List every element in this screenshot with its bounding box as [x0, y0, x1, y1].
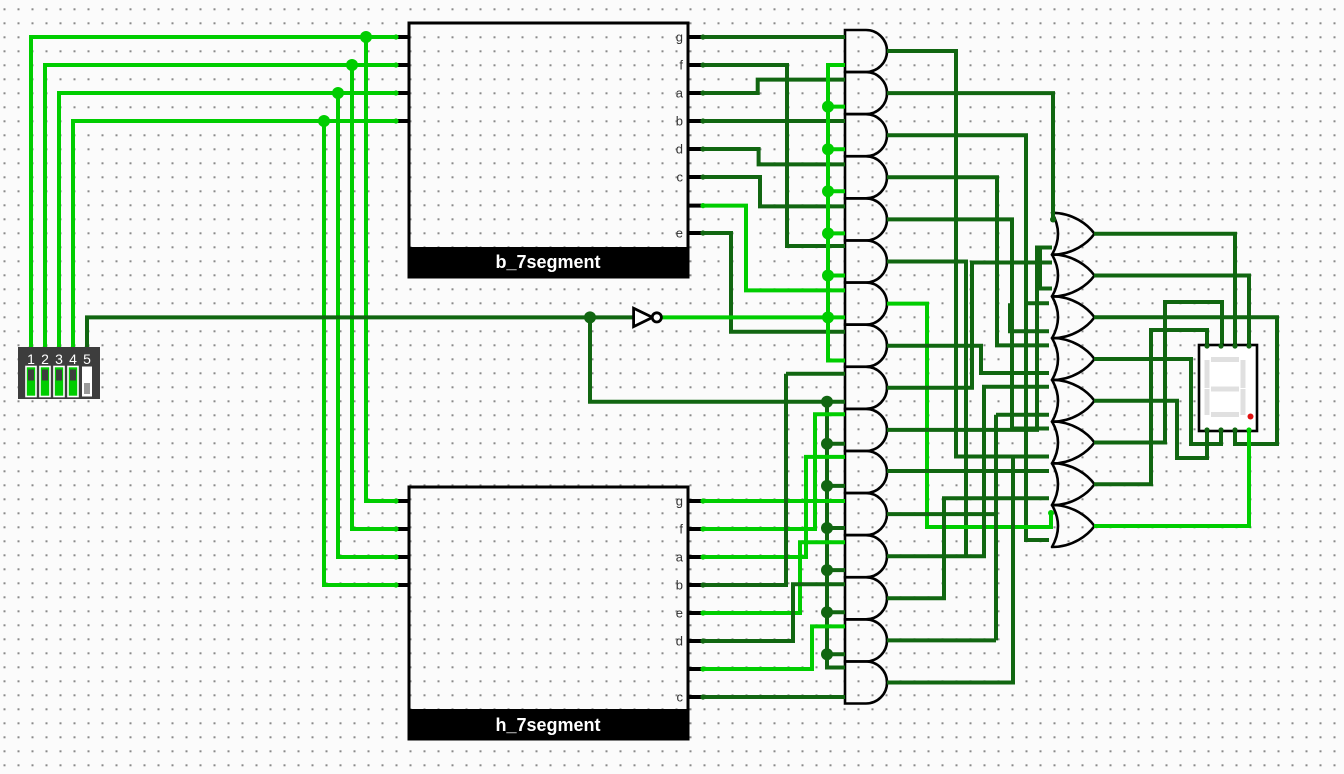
wire b.d jog to AND4 upper input — [702, 149, 845, 164]
wire OR1 output to display top pin 3 — [1094, 234, 1235, 345]
wire AND5 output to OR6 upper input — [887, 219, 1049, 428]
pin dot OR8 upper input — [1048, 510, 1054, 516]
svg-text:1: 1 — [27, 351, 35, 367]
AND gate A8 — [845, 325, 887, 367]
decimal point (lit) — [1248, 414, 1254, 420]
AND gate A2 — [845, 72, 887, 114]
wire OR3 output to display bottom pin 3 — [1094, 317, 1277, 444]
wire jog to OR2 lower input — [1040, 248, 1052, 289]
wire select branch down to bottom AND group — [590, 317, 827, 401]
wire select stub to AND lower input y=443.8 — [827, 442, 845, 446]
AND gate A16 — [845, 662, 887, 704]
pin dot h_7segment output y=641 — [700, 638, 705, 643]
wire AND1 output to OR6 lower input — [887, 51, 1049, 457]
svg-text:f: f — [679, 58, 683, 73]
svg-text:d: d — [676, 634, 683, 649]
svg-text:e: e — [676, 226, 683, 241]
AND gate A14 — [845, 577, 887, 619]
svg-text:4: 4 — [69, 351, 77, 367]
pin dot h_7segment input y=585 — [393, 582, 398, 587]
AND gate A15 — [845, 619, 887, 661]
pin dot h_7segment output y=669 — [700, 666, 705, 671]
wire AND11 output to OR7 upper input — [887, 469, 1049, 473]
junction inverted-select bus y=149.2 — [822, 143, 834, 155]
junction inverted-select bus y=317.4 — [822, 311, 834, 323]
svg-text:d: d — [676, 142, 683, 157]
AND gate A6 — [845, 241, 887, 283]
pin dot display top x=1235 — [1232, 343, 1237, 348]
pin dot h_7segment output y=529 — [700, 526, 705, 531]
pin dot b_7segment input y=65 — [393, 62, 398, 67]
svg-text:a: a — [676, 550, 684, 565]
wire h.f up to AND10 upper input — [702, 414, 845, 529]
pin dot h_7segment output y=613 — [700, 610, 705, 615]
wire OR8 output to display decimal-point pin — [1094, 431, 1249, 526]
subcircuit U2 b_7segment — [395, 23, 704, 277]
pin dot display top x=1221 — [1218, 343, 1223, 348]
pin dot b_7segment output y=93 — [700, 90, 705, 95]
junction select bus y=401.7 — [821, 396, 833, 408]
wire switch pin3 to b_7segment input a row — [59, 93, 409, 347]
pin dot display bottom x=1221 — [1218, 427, 1223, 432]
wire inverted-select bus up to AND1 lower input — [828, 65, 845, 317]
wire shared riser column — [994, 415, 998, 641]
junction at (324,121) — [318, 115, 330, 127]
svg-text:c: c — [677, 690, 684, 705]
wire AND2 output to OR1 upper input — [887, 93, 1053, 219]
wire branch to h_7segment input b row — [324, 121, 409, 585]
junction at (338,93) — [332, 87, 344, 99]
wire stub to AND9 upper input — [786, 372, 845, 376]
svg-text:e: e — [676, 606, 683, 621]
wire b.c jog to AND5 upper input — [702, 177, 845, 206]
junction select bus y=654.3 — [821, 648, 833, 660]
wire inverted-select stub to AND lower input y=275.5 — [828, 274, 845, 278]
wire AND4 output to OR4 upper input — [887, 177, 1049, 345]
OR gate O7 — [1052, 463, 1095, 505]
svg-text:g: g — [676, 494, 683, 509]
pin dot switch x=59 — [56, 345, 61, 350]
wire NOT output to AND7 lower input — [661, 315, 845, 319]
junction at (366,37) — [360, 31, 372, 43]
junction inverted-select bus y=106.6 — [822, 101, 834, 113]
wire select stub to AND lower input y=612.2 — [827, 610, 845, 614]
OR gate O6 — [1052, 422, 1095, 464]
OR gate O5 — [1052, 380, 1095, 422]
wire branch to h_7segment input g row — [366, 37, 409, 501]
wire inverted-select stub to AND lower input y=106.6 — [828, 105, 845, 109]
wire AND8 output to OR4 lower input — [887, 346, 1049, 373]
wire h.dp up to AND15 upper input — [702, 626, 845, 669]
wire b.dp down to AND7 upper input — [702, 206, 845, 291]
wire b.g to AND1 upper input — [702, 35, 845, 39]
pin dot h_7segment output y=501 — [700, 498, 705, 503]
pin dot switch x=87 — [84, 345, 89, 350]
OR gate O4 — [1052, 338, 1095, 380]
wire b.f down to AND6 upper input — [702, 65, 845, 246]
pin dot b_7segment output y=65 — [700, 62, 705, 67]
wire switch pin2 to b_7segment input f row — [45, 65, 409, 347]
wire switch pin5 (select) to NOT gate input — [87, 317, 633, 347]
OR gate O1 — [1052, 213, 1095, 255]
pin dot b_7segment output y=205.6 — [700, 203, 705, 208]
AND gate A9 — [845, 367, 887, 409]
pin dot b_7segment output y=149 — [700, 146, 705, 151]
junction inverted-select bus y=275.5 — [822, 270, 834, 282]
AND gate A12 — [845, 493, 887, 535]
pin dot switch x=31 — [28, 345, 33, 350]
pin dot b_7segment input y=37 — [393, 34, 398, 39]
AND gate A3 — [845, 114, 887, 156]
pin dot b_7segment output y=177 — [700, 174, 705, 179]
pin dot b_7segment output y=233 — [700, 230, 705, 235]
wire select bus to AND16 upper input — [827, 402, 845, 668]
NOT gate U1 — [634, 308, 653, 326]
wire select stub to AND lower input y=570.1 — [827, 568, 845, 572]
wire h.a up to AND11 upper input — [702, 457, 845, 557]
wire AND6 output riser — [887, 262, 966, 557]
svg-text:b_7segment: b_7segment — [495, 252, 600, 272]
wire OR4 output to display bottom pin 2 — [1094, 359, 1221, 444]
svg-text:h_7segment: h_7segment — [495, 715, 600, 735]
junction select line — [584, 311, 596, 323]
pin dot switch x=45 — [42, 345, 47, 350]
junction select bus y=443.8 — [821, 438, 833, 450]
svg-text:2: 2 — [41, 351, 49, 367]
pin dot display top x=1249 — [1246, 343, 1251, 348]
AND gate A11 — [845, 451, 887, 493]
AND gate A13 — [845, 535, 887, 577]
wire OR7 output to display top pin 1 — [1094, 330, 1207, 484]
svg-text:b: b — [676, 114, 683, 129]
junction inverted-select bus y=233.4 — [822, 227, 834, 239]
pin dot b_7segment output y=37 — [700, 34, 705, 39]
wire select stub to AND9 lower input — [827, 400, 845, 404]
wire OR5 output to display bottom pin 1 — [1094, 401, 1207, 458]
wire h.c to AND16 lower input — [702, 695, 845, 699]
junction select bus y=485.9 — [821, 480, 833, 492]
pin dot OR1 upper input — [1050, 217, 1056, 223]
wire h.e up to AND13 upper input — [702, 542, 845, 613]
pin dot h_7segment input y=501 — [393, 498, 398, 503]
wire AND9 output to OR2 upper input — [887, 263, 1052, 388]
svg-text:f: f — [679, 522, 683, 537]
wire AND15 output to riser — [887, 638, 996, 642]
wire stub to OR3 upper input — [1026, 301, 1049, 305]
wire b.a jog to AND2 upper input — [702, 80, 845, 93]
wire select stub to AND lower input y=654.3 — [827, 652, 845, 656]
svg-text:c: c — [677, 170, 684, 185]
wire AND10 output to OR1 lower input — [887, 248, 1052, 430]
wire AND12 output to riser — [887, 512, 996, 516]
wire inverted-select jog to AND8 lower input — [828, 317, 845, 360]
pin dot h_7segment input y=557 — [393, 554, 398, 559]
wire jog to OR3 lower input — [1010, 303, 1049, 331]
pin dot h_7segment output y=585 — [700, 582, 705, 587]
pin dot display top x=1207 — [1204, 343, 1209, 348]
DIP switch SW1 — [18, 347, 100, 399]
svg-text:3: 3 — [55, 351, 63, 367]
pin dot display bottom x=1207 — [1204, 427, 1209, 432]
wire branch to h_7segment input a row — [338, 93, 409, 557]
pin dot switch x=73 — [70, 345, 75, 350]
pin dot h_7segment input y=529 — [393, 526, 398, 531]
pin dot b_7segment output y=121 — [700, 118, 705, 123]
wire AND14 output to OR7 lower input — [887, 498, 1049, 598]
wire branch to h_7segment input f row — [352, 65, 409, 529]
wire select stub to AND lower input y=528 — [827, 526, 845, 530]
OR gate O8 — [1052, 505, 1095, 547]
pin dot b_7segment input y=121 — [393, 118, 398, 123]
junction inverted-select bus y=191.3 — [822, 185, 834, 197]
wire OR6 output to display top pin 2 — [1094, 302, 1222, 443]
OR gate O3 — [1052, 296, 1095, 338]
wire b.b to AND3 upper input — [702, 119, 845, 123]
wire AND13 output to OR5 upper input — [887, 387, 1049, 556]
wire h.b up to AND9 upper input riser — [702, 374, 786, 585]
pin dot display bottom x=1249 — [1246, 427, 1251, 432]
svg-text:b: b — [676, 578, 683, 593]
AND gate A10 — [845, 409, 887, 451]
pin dot b_7segment input y=93 — [393, 90, 398, 95]
svg-text:5: 5 — [83, 351, 91, 367]
wire AND16 output to OR6 lower input — [887, 457, 1013, 683]
svg-text:g: g — [676, 30, 683, 45]
wire inverted-select stub to AND lower input y=233.4 — [828, 231, 845, 235]
wire inverted-select stub to AND lower input y=191.3 — [828, 189, 845, 193]
wire b.e down to AND8 upper input — [702, 233, 845, 332]
wire riser to OR5 lower input — [996, 413, 1049, 417]
pin dot h_7segment output y=697 — [700, 694, 705, 699]
AND gate A7 — [845, 283, 887, 325]
wire h.g to AND12 upper input — [702, 499, 845, 503]
subcircuit U3 h_7segment — [395, 487, 704, 739]
OR gate O2 — [1052, 255, 1095, 297]
junction select bus y=612.2 — [821, 606, 833, 618]
7-segment display DS1 — [1199, 345, 1257, 431]
AND gate A1 — [845, 30, 887, 72]
junction select bus y=570.1 — [821, 564, 833, 576]
junction select bus y=528 — [821, 522, 833, 534]
wire AND7 output to OR8 upper input — [887, 304, 1051, 527]
junction at (352,65) — [346, 59, 358, 71]
AND gate A4 — [845, 156, 887, 198]
pin dot display bottom x=1235 — [1232, 427, 1237, 432]
wire switch pin1 to b_7segment input g row — [31, 37, 409, 347]
wire h.d up to AND14 upper input — [702, 584, 845, 641]
wire switch pin4 to b_7segment input b row — [73, 121, 409, 347]
wire inverted-select stub to AND lower input y=149.2 — [828, 147, 845, 151]
wire select stub to AND lower input y=485.9 — [827, 484, 845, 488]
wire AND3 output to OR8 lower input — [887, 135, 1049, 540]
svg-text:a: a — [676, 86, 684, 101]
wire OR2 output to display top pin 4 — [1094, 276, 1249, 346]
pin dot h_7segment output y=557 — [700, 554, 705, 559]
AND gate A5 — [845, 198, 887, 240]
